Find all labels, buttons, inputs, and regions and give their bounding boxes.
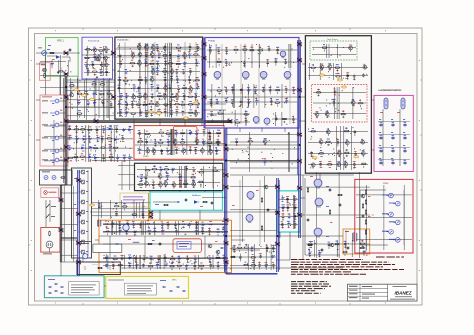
svg-text:MidBoost: MidBoost [192, 194, 201, 197]
svg-text:LIGHTING/TEST SWITCH: LIGHTING/TEST SWITCH [378, 90, 401, 92]
svg-text:PRE(A): PRE(A) [208, 40, 215, 43]
svg-text:EQ(3rd/4th): EQ(3rd/4th) [118, 39, 129, 42]
svg-text:EQ(1st/2nd): EQ(1st/2nd) [88, 40, 100, 43]
svg-text:PRE2: PRE2 [383, 183, 389, 185]
svg-text:Tone Power: Tone Power [327, 39, 338, 41]
svg-text:PRE4: PRE4 [143, 156, 149, 158]
svg-text:IBANEZ: IBANEZ [394, 291, 411, 296]
svg-text:PRE 1: PRE 1 [57, 40, 65, 43]
svg-text:PCB(4): PCB(4) [210, 115, 217, 117]
